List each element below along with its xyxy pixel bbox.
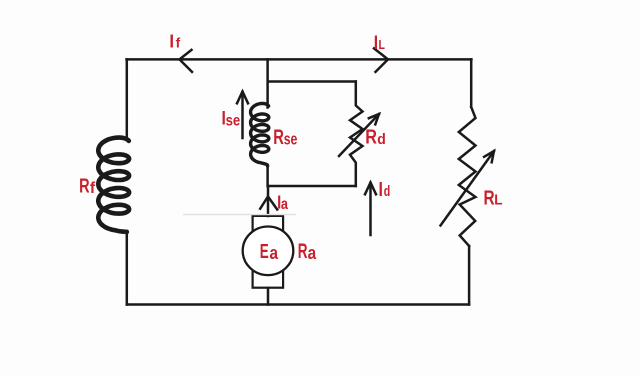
svg-text:R: R	[484, 187, 495, 209]
svg-text:d: d	[384, 183, 390, 199]
svg-text:d: d	[377, 131, 386, 148]
svg-text:E: E	[260, 241, 269, 263]
svg-text:se: se	[284, 131, 298, 149]
svg-text:R: R	[273, 124, 284, 148]
svg-text:I: I	[169, 31, 174, 52]
svg-text:a: a	[270, 243, 279, 264]
svg-text:R: R	[365, 125, 377, 148]
svg-text:se: se	[226, 112, 241, 129]
svg-text:f: f	[176, 36, 181, 51]
svg-text:R: R	[79, 174, 90, 197]
svg-text:L: L	[379, 37, 385, 53]
svg-text:R: R	[298, 239, 308, 263]
svg-text:a: a	[308, 243, 317, 264]
svg-text:I: I	[374, 31, 378, 53]
svg-text:a: a	[281, 196, 288, 213]
svg-text:I: I	[379, 178, 383, 200]
svg-text:f: f	[90, 180, 96, 197]
svg-text:L: L	[494, 191, 503, 208]
